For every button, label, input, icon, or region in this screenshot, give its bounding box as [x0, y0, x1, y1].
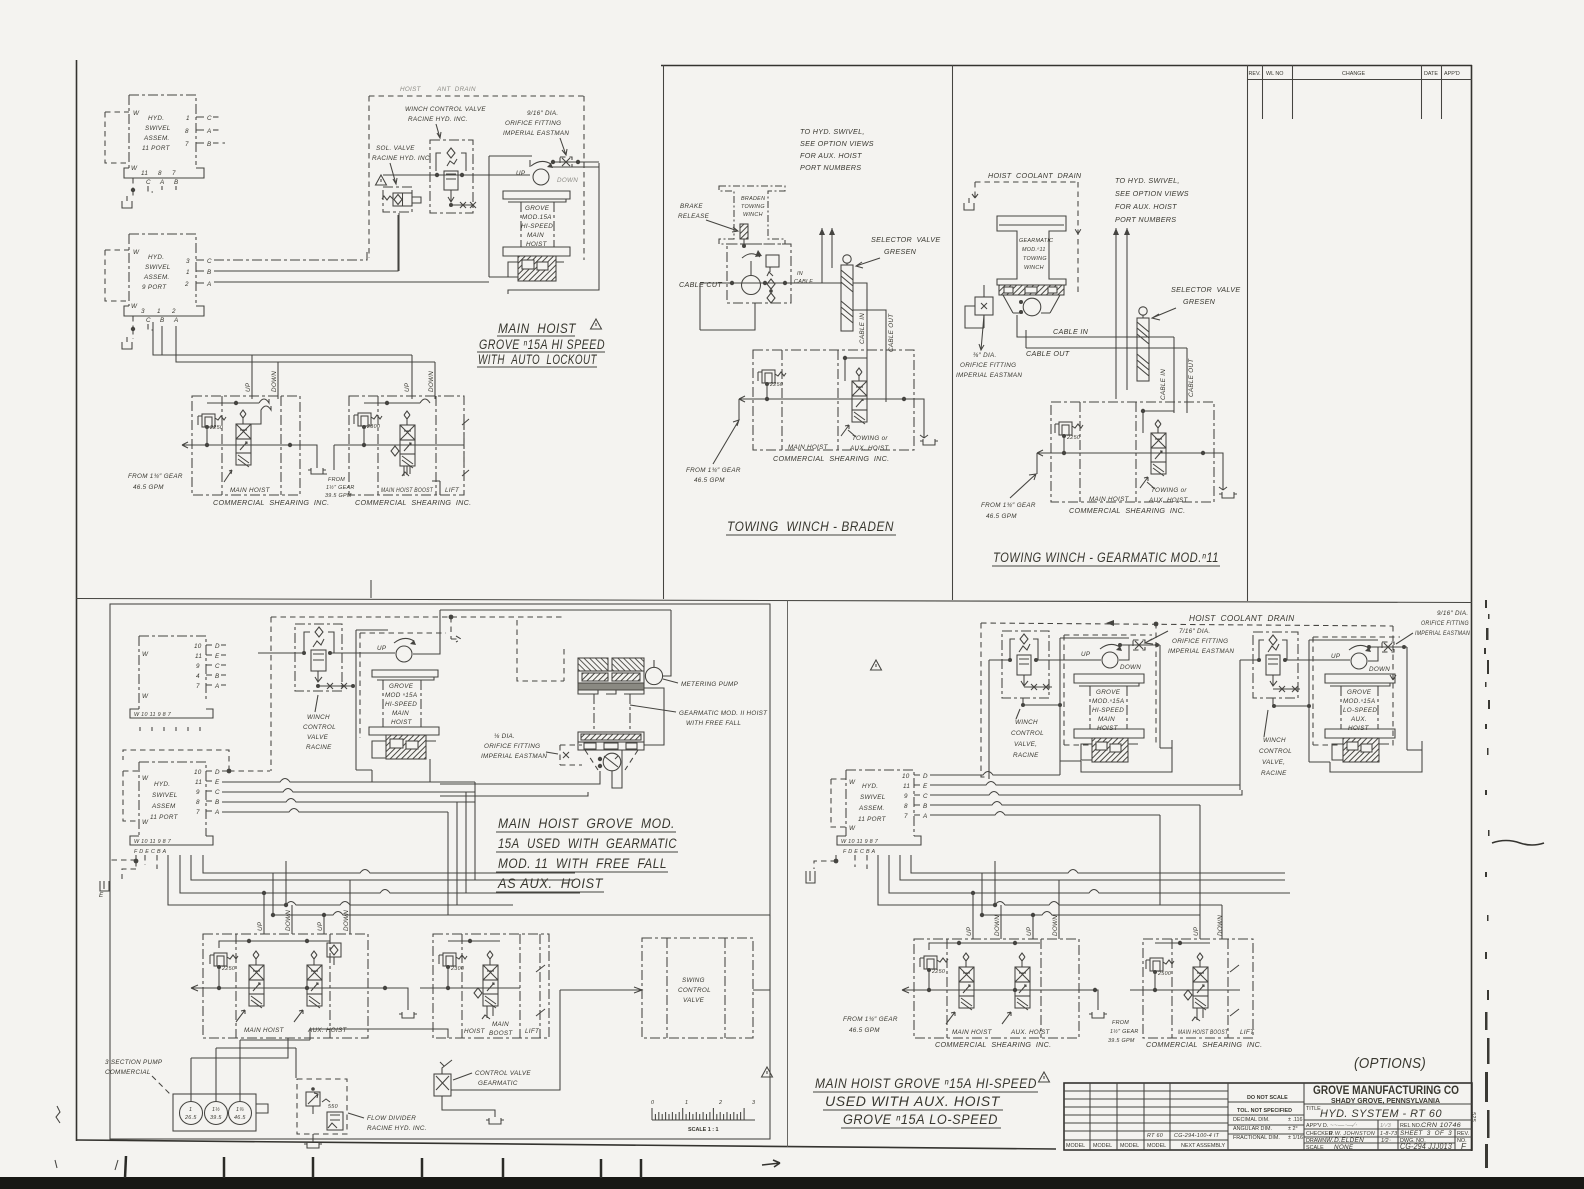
svg-text:FROM: FROM	[1112, 1020, 1129, 1026]
svg-text:E: E	[215, 653, 220, 660]
svg-text:UP: UP	[377, 645, 387, 652]
svg-text:FROM 1¾″ GEAR: FROM 1¾″ GEAR	[981, 502, 1036, 509]
svg-text:ORIFICE FITTING: ORIFICE FITTING	[505, 120, 561, 127]
svg-text:1: 1	[157, 308, 161, 315]
svg-text:CABLE OUT: CABLE OUT	[1026, 349, 1070, 358]
svg-text:10: 10	[194, 769, 202, 776]
svg-text:CRN 10746: CRN 10746	[1421, 1122, 1461, 1129]
svg-text:UP: UP	[404, 382, 411, 392]
svg-text:1⁄2⋅: 1⁄2⋅	[1381, 1138, 1391, 1144]
svg-text:15A USED WITH GEARMATIC: 15A USED WITH GEARMATIC	[498, 836, 677, 851]
svg-text:CABLE: CABLE	[794, 279, 813, 285]
svg-text:ASSEM.: ASSEM.	[858, 805, 885, 812]
svg-text:7/16″ DIA.: 7/16″ DIA.	[1179, 628, 1210, 635]
svg-text:UP: UP	[245, 382, 252, 392]
svg-text:FRACTIONAL DIM.: FRACTIONAL DIM.	[1233, 1135, 1280, 1141]
svg-text:11 PORT: 11 PORT	[150, 814, 179, 821]
svg-text:APP'D: APP'D	[1444, 71, 1460, 77]
svg-text:MOD.ⁿ15A: MOD.ⁿ15A	[1092, 698, 1124, 705]
svg-text:C: C	[207, 258, 212, 265]
svg-text:MOD ⁿ15A: MOD ⁿ15A	[385, 692, 417, 699]
svg-text:CABLE CUT: CABLE CUT	[679, 280, 722, 289]
svg-text:CABLE OUT: CABLE OUT	[888, 313, 895, 352]
svg-text:ASSEM.: ASSEM.	[143, 274, 170, 281]
svg-text:DOWN: DOWN	[271, 371, 278, 392]
svg-text:UP: UP	[257, 921, 264, 931]
svg-text:46.5 GPM: 46.5 GPM	[986, 513, 1017, 520]
svg-text:IMPERIAL EASTMAN: IMPERIAL EASTMAN	[481, 753, 547, 760]
svg-text:W: W	[142, 651, 149, 658]
svg-text:ASSEM.: ASSEM.	[143, 135, 170, 142]
svg-text:MODEL: MODEL	[1147, 1143, 1166, 1149]
svg-text:9: 9	[196, 663, 200, 670]
svg-text:GROVE: GROVE	[1347, 689, 1372, 696]
svg-text:2250: 2250	[931, 969, 945, 975]
svg-text:SHEET 3 OF 3: SHEET 3 OF 3	[1400, 1130, 1452, 1137]
svg-text:DOWN: DOWN	[1052, 915, 1059, 936]
svg-text:TOWING or: TOWING or	[1151, 487, 1187, 494]
svg-text:CG-294-100-4 IT: CG-294-100-4 IT	[1174, 1133, 1220, 1139]
svg-text:SWIVEL: SWIVEL	[860, 794, 886, 801]
svg-text:MAIN HOIST: MAIN HOIST	[788, 444, 829, 451]
svg-text:FOR AUX. HOIST: FOR AUX. HOIST	[1115, 202, 1177, 211]
svg-text:DOWN: DOWN	[557, 177, 578, 184]
svg-text:PORT NUMBERS: PORT NUMBERS	[1115, 215, 1176, 224]
svg-text:W: W	[142, 693, 149, 700]
svg-text:A: A	[922, 813, 928, 820]
svg-text:C: C	[207, 115, 212, 122]
svg-text:± .116: ± .116	[1288, 1117, 1303, 1123]
svg-text:AUX. HOIST: AUX. HOIST	[307, 1027, 348, 1034]
svg-text:1: 1	[186, 269, 190, 276]
svg-text:W 10 11 9 8 7: W 10 11 9 8 7	[134, 839, 172, 845]
svg-text:A: A	[206, 128, 212, 135]
svg-text:9/16″ DIA.: 9/16″ DIA.	[1437, 610, 1468, 617]
svg-text:DOWN: DOWN	[1217, 915, 1224, 936]
svg-text:DRAWN: DRAWN	[1306, 1138, 1326, 1144]
svg-text:7: 7	[185, 141, 189, 148]
svg-text:MOD.ⁿ11: MOD.ⁿ11	[1022, 247, 1046, 253]
svg-text:7: 7	[196, 809, 200, 816]
svg-text:RACINE: RACINE	[1013, 752, 1039, 759]
svg-text:± 1/16: ± 1/16	[1288, 1135, 1303, 1141]
svg-text:11 PORT: 11 PORT	[858, 816, 887, 823]
svg-text:SELECTOR VALVE: SELECTOR VALVE	[871, 235, 940, 244]
svg-text:CONTROL VALVE: CONTROL VALVE	[475, 1070, 531, 1077]
svg-text:CABLE IN: CABLE IN	[859, 313, 866, 344]
svg-text:B: B	[174, 179, 179, 186]
svg-text:COMMERCIAL SHEARING INC.: COMMERCIAL SHEARING INC.	[213, 498, 329, 507]
svg-text:IMPERIAL EASTMAN: IMPERIAL EASTMAN	[503, 130, 569, 137]
svg-text:REL NO.: REL NO.	[1400, 1123, 1421, 1129]
svg-text:MODEL: MODEL	[1120, 1143, 1139, 1149]
svg-text:HYD.: HYD.	[862, 783, 878, 790]
svg-text:D: D	[215, 643, 220, 650]
svg-text:UP: UP	[516, 170, 526, 177]
svg-text:3: 3	[141, 308, 145, 315]
svg-text:NEXT ASSEMBLY: NEXT ASSEMBLY	[1181, 1143, 1226, 1149]
svg-text:B: B	[923, 803, 928, 810]
svg-text:HOIST: HOIST	[526, 241, 548, 248]
svg-text:WINCH CONTROL VALVE: WINCH CONTROL VALVE	[405, 106, 486, 113]
svg-text:A: A	[214, 683, 220, 690]
svg-text:DOWN: DOWN	[994, 915, 1001, 936]
svg-text:TOWING or: TOWING or	[852, 435, 888, 442]
svg-text:3 SECTION PUMP: 3 SECTION PUMP	[105, 1059, 163, 1066]
svg-text:HYD. SYSTEM - RT 60: HYD. SYSTEM - RT 60	[1320, 1108, 1442, 1120]
svg-text:CONTROL: CONTROL	[1259, 748, 1292, 755]
svg-text:HI-SPEED: HI-SPEED	[1092, 707, 1124, 714]
svg-text:46.5: 46.5	[234, 1115, 246, 1121]
svg-text:IN: IN	[797, 271, 803, 277]
svg-text:C: C	[215, 789, 220, 796]
svg-text:HOIST COOLANT DRAIN: HOIST COOLANT DRAIN	[988, 171, 1082, 180]
svg-text:C: C	[146, 179, 151, 186]
svg-text:46.5 GPM: 46.5 GPM	[694, 477, 725, 484]
svg-text:HOIST: HOIST	[391, 719, 413, 726]
svg-text:1¾: 1¾	[236, 1107, 244, 1113]
svg-text:(OPTIONS): (OPTIONS)	[1354, 1055, 1426, 1072]
svg-text:REV.: REV.	[1457, 1131, 1469, 1137]
svg-text:46.5 GPM: 46.5 GPM	[849, 1027, 880, 1034]
svg-text:HOIST: HOIST	[464, 1028, 486, 1035]
svg-text:CG-294 JJJ013: CG-294 JJJ013	[1400, 1142, 1452, 1151]
svg-text:UP: UP	[966, 926, 973, 936]
svg-text:VALVE: VALVE	[307, 734, 329, 741]
svg-text:11: 11	[903, 783, 910, 790]
svg-text:W.D.ELDEN: W.D.ELDEN	[1326, 1137, 1364, 1144]
svg-text:2500: 2500	[1157, 971, 1171, 977]
svg-text:WINCH: WINCH	[1263, 737, 1286, 744]
svg-text:COMMERCIAL SHEARING INC.: COMMERCIAL SHEARING INC.	[935, 1040, 1051, 1049]
svg-text:RACINE: RACINE	[1261, 770, 1287, 777]
svg-text:W: W	[133, 249, 140, 256]
svg-text:TO HYD. SWIVEL,: TO HYD. SWIVEL,	[1115, 176, 1180, 185]
svg-text:1: 1	[189, 1107, 192, 1113]
svg-text:550: 550	[328, 1104, 338, 1110]
svg-text:COMMERCIAL SHEARING INC.: COMMERCIAL SHEARING INC.	[773, 454, 889, 463]
svg-text:UP: UP	[1331, 653, 1341, 660]
svg-text:FOR AUX. HOIST: FOR AUX. HOIST	[800, 151, 862, 160]
svg-text:LIFT: LIFT	[445, 487, 460, 494]
svg-text:W: W	[133, 110, 140, 117]
svg-text:SWIVEL: SWIVEL	[145, 125, 171, 132]
svg-text:MODEL: MODEL	[1066, 1143, 1085, 1149]
svg-text:1⁄⋅⁄3: 1⁄⋅⁄3	[1380, 1123, 1391, 1129]
svg-text:525: 525	[1470, 1112, 1476, 1123]
svg-text:DOWN: DOWN	[285, 910, 292, 931]
svg-text:AS AUX. HOIST: AS AUX. HOIST	[497, 876, 604, 891]
svg-text:SCALE: SCALE	[1306, 1145, 1324, 1151]
svg-text:HOIST: HOIST	[1097, 725, 1119, 732]
svg-text:W 10 11 9 8 7: W 10 11 9 8 7	[841, 839, 879, 845]
svg-text:AUX. HOIST: AUX. HOIST	[1148, 497, 1189, 504]
svg-text:W: W	[849, 825, 856, 832]
svg-text:F: F	[1461, 1142, 1467, 1151]
svg-text:⅜″ DIA.: ⅜″ DIA.	[973, 352, 997, 359]
svg-text:WITH FREE FALL: WITH FREE FALL	[686, 720, 741, 727]
svg-text:GROVE ⁿ15A LO-SPEED: GROVE ⁿ15A LO-SPEED	[843, 1112, 998, 1127]
svg-text:8: 8	[196, 799, 200, 806]
svg-text:SEE OPTION VIEWS: SEE OPTION VIEWS	[800, 139, 874, 148]
svg-text:2: 2	[171, 308, 176, 315]
svg-text:W 10 11 9 8 7: W 10 11 9 8 7	[134, 712, 172, 718]
svg-text:FLOW DIVIDER: FLOW DIVIDER	[367, 1115, 416, 1122]
svg-text:HYD.: HYD.	[154, 781, 170, 788]
svg-text:DECIMAL DIM.: DECIMAL DIM.	[1233, 1117, 1270, 1123]
svg-text:CABLE OUT: CABLE OUT	[1188, 358, 1195, 397]
svg-text:FROM 1¾″ GEAR: FROM 1¾″ GEAR	[128, 473, 183, 480]
svg-text:ANGULAR DIM.: ANGULAR DIM.	[1233, 1126, 1272, 1132]
svg-text:BOOST: BOOST	[489, 1030, 513, 1037]
svg-text:7: 7	[172, 170, 176, 177]
svg-text:AUX.: AUX.	[1350, 716, 1367, 723]
svg-text:2250: 2250	[221, 966, 235, 972]
svg-text:VALVE,: VALVE,	[1014, 741, 1037, 748]
svg-text:F D E C B A: F D E C B A	[134, 849, 166, 855]
svg-text:GEARMATIC: GEARMATIC	[1019, 238, 1053, 244]
svg-text:1-8-73: 1-8-73	[1380, 1131, 1397, 1137]
svg-text:MAIN: MAIN	[392, 710, 409, 717]
svg-text:C: C	[146, 317, 151, 324]
svg-text:COMMERCIAL SHEARING INC.: COMMERCIAL SHEARING INC.	[1069, 506, 1185, 515]
svg-text:MAIN: MAIN	[492, 1021, 509, 1028]
svg-text:HOIST ANT DRAIN: HOIST ANT DRAIN	[400, 86, 476, 93]
svg-text:3: 3	[186, 258, 190, 265]
svg-text:DATE: DATE	[1424, 71, 1438, 77]
svg-text:11: 11	[141, 170, 148, 177]
svg-text:GEARMATIC MOD. II HOIST: GEARMATIC MOD. II HOIST	[679, 710, 768, 717]
svg-text:11: 11	[195, 779, 202, 786]
svg-text:7: 7	[196, 683, 200, 690]
svg-text:E: E	[99, 892, 104, 899]
svg-text:W: W	[849, 779, 856, 786]
svg-text:DOWN: DOWN	[428, 371, 435, 392]
svg-text:TOWING: TOWING	[1023, 256, 1047, 262]
svg-text:4: 4	[196, 673, 200, 680]
svg-text:C: C	[923, 793, 928, 800]
svg-text:GROVE: GROVE	[525, 205, 550, 212]
svg-text:MAIN HOIST: MAIN HOIST	[498, 321, 577, 336]
svg-text:WINCH: WINCH	[1024, 265, 1044, 271]
svg-text:RACINE HYD. INC.: RACINE HYD. INC.	[408, 116, 468, 123]
svg-text:SEE OPTION VIEWS: SEE OPTION VIEWS	[1115, 189, 1189, 198]
svg-text:UP: UP	[1081, 651, 1091, 658]
svg-text:VALVE,: VALVE,	[1262, 759, 1285, 766]
svg-text:COMMERCIAL: COMMERCIAL	[105, 1069, 151, 1076]
svg-text:D: D	[215, 769, 220, 776]
svg-text:MAIN HOIST BOOST: MAIN HOIST BOOST	[1178, 1029, 1229, 1036]
svg-text:TOWING WINCH - GEARMATIC MOD.ⁿ: TOWING WINCH - GEARMATIC MOD.ⁿ11	[993, 550, 1219, 565]
svg-text:DOWN: DOWN	[343, 910, 350, 931]
svg-text:COMMERCIAL SHEARING INC.: COMMERCIAL SHEARING INC.	[1146, 1040, 1262, 1049]
svg-text:MOD.15A: MOD.15A	[522, 214, 552, 221]
svg-text:USED WITH AUX. HOIST: USED WITH AUX. HOIST	[825, 1094, 1001, 1109]
svg-text:W: W	[131, 165, 138, 172]
svg-text:7: 7	[904, 813, 908, 820]
svg-text:WITH AUTO LOCKOUT: WITH AUTO LOCKOUT	[478, 352, 598, 367]
svg-text:NONE: NONE	[1334, 1144, 1354, 1151]
svg-text:C: C	[215, 663, 220, 670]
svg-text:B: B	[207, 269, 212, 276]
svg-text:AUX. HOIST: AUX. HOIST	[849, 445, 890, 452]
svg-text:0: 0	[651, 1100, 654, 1106]
svg-text:2: 2	[184, 281, 189, 288]
svg-text:B: B	[207, 141, 212, 148]
svg-text:2250: 2250	[209, 425, 223, 431]
svg-text:UP: UP	[317, 921, 324, 931]
svg-text:LIFT: LIFT	[525, 1028, 540, 1035]
svg-text:11: 11	[195, 653, 202, 660]
svg-text:GEARMATIC: GEARMATIC	[478, 1080, 518, 1087]
svg-text:1: 1	[186, 115, 190, 122]
svg-text:RACINE HYD. INC.: RACINE HYD. INC.	[367, 1125, 427, 1132]
svg-text:MAIN HOIST: MAIN HOIST	[952, 1029, 993, 1036]
svg-text:MAIN HOIST: MAIN HOIST	[244, 1027, 285, 1034]
svg-text:PORT NUMBERS: PORT NUMBERS	[800, 163, 861, 172]
svg-text:AUX. HOIST: AUX. HOIST	[1010, 1029, 1051, 1036]
svg-text:8: 8	[904, 803, 908, 810]
svg-text:SWIVEL: SWIVEL	[145, 264, 171, 271]
svg-text:46.5 GPM: 46.5 GPM	[133, 484, 164, 491]
svg-text:MAIN: MAIN	[1098, 716, 1115, 723]
svg-text:E: E	[923, 783, 928, 790]
svg-text:HYD.: HYD.	[148, 254, 164, 261]
svg-text:A: A	[206, 281, 212, 288]
svg-text:1½″ GEAR: 1½″ GEAR	[1110, 1028, 1139, 1035]
svg-text:11 PORT: 11 PORT	[142, 145, 171, 152]
svg-text:LIFT: LIFT	[1240, 1029, 1255, 1036]
svg-text:2: 2	[718, 1100, 722, 1106]
svg-text:B: B	[215, 673, 220, 680]
svg-text:B: B	[215, 799, 220, 806]
svg-text:1: 1	[685, 1100, 688, 1106]
svg-text:GROVE: GROVE	[1096, 689, 1121, 696]
svg-text:BRAKE: BRAKE	[680, 203, 703, 210]
svg-text:GROVE MANUFACTURING CO: GROVE MANUFACTURING CO	[1313, 1083, 1459, 1097]
svg-text:MAIN HOIST GROVE ⁿ15A HI-SPEED: MAIN HOIST GROVE ⁿ15A HI-SPEED	[815, 1076, 1037, 1091]
svg-text:FROM 1¾″ GEAR: FROM 1¾″ GEAR	[843, 1016, 898, 1023]
svg-text:UP: UP	[1193, 926, 1200, 936]
svg-text:RACINE HYD. INC.: RACINE HYD. INC.	[372, 155, 432, 162]
svg-text:GROVE ⁿ15A HI SPEED: GROVE ⁿ15A HI SPEED	[479, 337, 605, 352]
svg-text:MAIN HOIST GROVE MOD.: MAIN HOIST GROVE MOD.	[498, 816, 675, 831]
svg-text:DOWN: DOWN	[1120, 664, 1141, 671]
svg-text:MOD. 11 WITH FREE FALL: MOD. 11 WITH FREE FALL	[498, 856, 667, 871]
svg-text:UP: UP	[1026, 926, 1033, 936]
svg-text:CHANGE: CHANGE	[1342, 71, 1365, 77]
svg-text:SCALE 1 : 1: SCALE 1 : 1	[688, 1127, 719, 1133]
svg-text:CONTROL: CONTROL	[303, 724, 336, 731]
svg-text:3: 3	[752, 1100, 755, 1106]
svg-text:8: 8	[158, 170, 162, 177]
svg-text:VALVE: VALVE	[683, 997, 705, 1004]
svg-text:9 PORT: 9 PORT	[142, 284, 167, 291]
svg-text:39.5 GPM: 39.5 GPM	[325, 493, 352, 499]
svg-text:B: B	[160, 317, 165, 324]
svg-text:9: 9	[904, 793, 908, 800]
svg-text:DO NOT SCALE: DO NOT SCALE	[1247, 1095, 1288, 1101]
svg-text:ORIFICE FITTING: ORIFICE FITTING	[484, 743, 540, 750]
svg-text:A: A	[173, 317, 179, 324]
svg-text:26.5: 26.5	[184, 1115, 197, 1121]
svg-text:IMPERIAL EASTMAN: IMPERIAL EASTMAN	[1168, 648, 1234, 655]
svg-text:IMPERIAL EASTMAN: IMPERIAL EASTMAN	[956, 372, 1022, 379]
svg-text:HI-SPEED: HI-SPEED	[521, 223, 553, 230]
svg-text:W: W	[131, 303, 138, 310]
svg-text:CONTROL: CONTROL	[1011, 730, 1044, 737]
svg-text:HYD.: HYD.	[148, 115, 164, 122]
svg-text:COMMERCIAL SHEARING INC.: COMMERCIAL SHEARING INC.	[355, 498, 471, 507]
svg-text:WINCH: WINCH	[743, 212, 763, 218]
svg-text:SWING: SWING	[682, 977, 705, 984]
svg-text:HI-SPEED: HI-SPEED	[385, 701, 417, 708]
svg-text:GRESEN: GRESEN	[1183, 297, 1216, 306]
svg-text:39.5 GPM: 39.5 GPM	[1108, 1038, 1135, 1044]
svg-text:ORIFICE FITTING: ORIFICE FITTING	[960, 362, 1016, 369]
svg-text:~~—⋅—⁄⋅: ~~—⋅—⁄⋅	[1330, 1122, 1357, 1129]
svg-text:W: W	[142, 775, 149, 782]
svg-text:MAIN HOIST: MAIN HOIST	[1089, 496, 1130, 503]
svg-text:RACINE: RACINE	[306, 744, 332, 751]
svg-text:W: W	[142, 819, 149, 826]
svg-text:± 2°: ± 2°	[1288, 1126, 1298, 1132]
svg-text:TO HYD. SWIVEL,: TO HYD. SWIVEL,	[800, 127, 865, 136]
svg-text:LO-SPEED: LO-SPEED	[1343, 707, 1377, 714]
svg-text:⅛ DIA.: ⅛ DIA.	[494, 733, 515, 740]
svg-text:E: E	[215, 779, 220, 786]
svg-text:CABLE IN: CABLE IN	[1053, 327, 1089, 336]
svg-text:ORIFICE FITTING: ORIFICE FITTING	[1172, 638, 1228, 645]
svg-text:F D E C B A: F D E C B A	[843, 849, 875, 855]
svg-text:ASSEM: ASSEM	[151, 803, 176, 810]
svg-text:MODEL: MODEL	[1093, 1143, 1112, 1149]
svg-text:FROM 1¾″ GEAR: FROM 1¾″ GEAR	[686, 467, 741, 474]
svg-text:MAIN HOIST: MAIN HOIST	[230, 487, 271, 494]
svg-text:TOWING: TOWING	[741, 204, 765, 210]
svg-text:GRESEN: GRESEN	[884, 247, 917, 256]
svg-text:RT 60: RT 60	[1147, 1133, 1163, 1139]
svg-text:CONTROL: CONTROL	[678, 987, 711, 994]
svg-text:TITLE: TITLE	[1306, 1106, 1321, 1112]
svg-text:SWIVEL: SWIVEL	[152, 792, 178, 799]
svg-text:CABLE IN: CABLE IN	[1160, 369, 1167, 400]
svg-text:DOWN: DOWN	[1369, 666, 1390, 673]
svg-text:MOD.ⁿ15A: MOD.ⁿ15A	[1343, 698, 1375, 705]
svg-text:GROVE: GROVE	[389, 683, 414, 690]
svg-text:WL NO: WL NO	[1266, 71, 1283, 77]
svg-text:1½: 1½	[212, 1106, 220, 1113]
svg-text:2250: 2250	[769, 382, 783, 388]
svg-text:1½″ GEAR: 1½″ GEAR	[326, 484, 355, 491]
svg-text:MAIN HOIST BOOST: MAIN HOIST BOOST	[381, 487, 434, 494]
svg-text:10: 10	[902, 773, 910, 780]
svg-text:HOIST COOLANT DRAIN: HOIST COOLANT DRAIN	[1189, 614, 1294, 623]
svg-text:WINCH: WINCH	[307, 714, 330, 721]
svg-text:SHADY GROVE, PENNSYLVANIA: SHADY GROVE, PENNSYLVANIA	[1331, 1096, 1441, 1105]
svg-text:APP'V D.: APP'V D.	[1306, 1123, 1328, 1129]
svg-text:SELECTOR VALVE: SELECTOR VALVE	[1171, 285, 1240, 294]
svg-text:FROM: FROM	[328, 477, 345, 483]
svg-text:WINCH: WINCH	[1015, 719, 1038, 726]
svg-text:TOWING WINCH - BRADEN: TOWING WINCH - BRADEN	[727, 519, 894, 534]
svg-text:A: A	[214, 809, 220, 816]
svg-text:HOIST: HOIST	[1348, 725, 1370, 732]
svg-text:IMPERIAL EASTMAN: IMPERIAL EASTMAN	[1415, 630, 1470, 637]
svg-text:ORIFICE FITTING: ORIFICE FITTING	[1421, 620, 1469, 627]
svg-text:2250: 2250	[1066, 435, 1080, 441]
svg-text:D: D	[923, 773, 928, 780]
